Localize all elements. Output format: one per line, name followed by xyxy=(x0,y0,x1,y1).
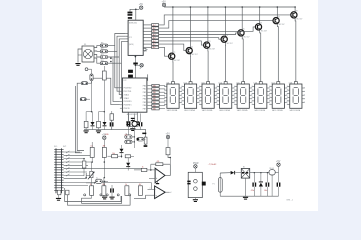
svg-text:BC 557: BC 557 xyxy=(227,43,233,45)
capacitor C4 xyxy=(135,121,139,122)
wire collector-emitter T8 xyxy=(294,7,296,12)
resistor R38 vertical xyxy=(144,137,147,144)
svg-text:BC 557: BC 557 xyxy=(279,24,285,26)
jumper JP9 xyxy=(125,140,132,143)
capacitor C6 xyxy=(110,122,111,126)
capacitor C3 xyxy=(126,121,130,122)
resistor R25 horizontal xyxy=(112,155,118,158)
IC1 left pins xyxy=(125,33,128,35)
ground X1 xyxy=(194,198,196,199)
svg-text:LD6: LD6 xyxy=(254,82,257,84)
resistor R34 vertical xyxy=(166,148,170,155)
power flag AC input xyxy=(194,165,197,168)
svg-text:1k: 1k xyxy=(125,184,127,186)
svg-text:+5V: +5V xyxy=(162,1,167,4)
display LD8 SA52-11 seven-segment xyxy=(290,84,302,108)
svg-text:LD5: LD5 xyxy=(236,82,239,84)
svg-text:SA52-11EWA: SA52-11EWA xyxy=(289,109,300,112)
transistor T9 xyxy=(132,121,137,126)
svg-text:IC2: IC2 xyxy=(124,80,127,82)
wire bridge out rail xyxy=(250,172,269,174)
svg-text:XTAL1: XTAL1 xyxy=(124,97,129,100)
resistor R22 small upper xyxy=(110,114,114,120)
resistor R14 330 xyxy=(148,101,152,103)
svg-text:100n: 100n xyxy=(264,190,268,192)
svg-text:+5V: +5V xyxy=(166,133,171,136)
jumper JP2 xyxy=(100,50,108,53)
svg-text:SV2: SV2 xyxy=(63,146,66,148)
wire +5V top rail xyxy=(164,6,295,8)
jumper JP7 horizontal xyxy=(81,82,87,85)
svg-text:PB0: PB0 xyxy=(143,85,146,87)
rail junction dots xyxy=(254,172,255,173)
svg-text:4k7: 4k7 xyxy=(153,47,156,49)
svg-text:PD2/INT0: PD2/INT0 xyxy=(124,101,132,103)
op-amp n/a IC1 box xyxy=(128,20,143,55)
svg-text:PWR: PWR xyxy=(193,162,199,165)
svg-text:PD0/RXD: PD0/RXD xyxy=(124,88,132,90)
svg-text:LD4: LD4 xyxy=(219,82,222,84)
transistor T2 BC557 xyxy=(186,48,192,54)
svg-text:JP1: JP1 xyxy=(101,42,104,44)
resistor R17 xyxy=(102,71,106,80)
capacitor C2 xyxy=(128,17,132,19)
wire IC1 bottom to IC2 xyxy=(134,55,136,78)
wire riser JP6 to row-A xyxy=(91,81,93,112)
svg-text:BC 557: BC 557 xyxy=(297,19,303,21)
wire base T7 xyxy=(159,21,273,29)
svg-text:PD1/TXD: PD1/TXD xyxy=(124,91,132,93)
svg-text:T4: T4 xyxy=(226,35,228,37)
svg-text:330: 330 xyxy=(153,92,156,94)
ground below connector xyxy=(56,198,61,199)
power stub op-amp IC3A xyxy=(157,181,159,183)
svg-text:PB2: PB2 xyxy=(143,92,146,94)
IC2 right pins xyxy=(146,85,149,87)
resistor R20 xyxy=(84,121,88,127)
diode D1 xyxy=(91,122,95,125)
wire base T2 xyxy=(159,44,186,51)
resistor R16 330 xyxy=(148,108,152,110)
svg-text:1k: 1k xyxy=(142,167,144,169)
svg-text:o2: o2 xyxy=(170,192,172,194)
resistor R7 4k7 xyxy=(152,43,159,46)
resistor R21 xyxy=(97,121,101,127)
display LD4 pins xyxy=(218,86,220,88)
wire bridge bottom xyxy=(245,178,247,196)
bridge rectifier B1 xyxy=(241,169,249,179)
power flag +5V mid xyxy=(103,136,106,139)
diode D2 xyxy=(103,122,107,125)
resistor R31 xyxy=(138,186,142,196)
regulator IC4 78L05 xyxy=(269,170,275,175)
resistor R8 4k7 xyxy=(152,46,159,49)
svg-text:330: 330 xyxy=(153,99,156,101)
svg-text:4k7: 4k7 xyxy=(153,41,156,43)
resistor R15 330 xyxy=(148,104,152,106)
op IC2 box AT90S2313 xyxy=(122,78,146,112)
jumper JP8 xyxy=(125,135,132,139)
resistor R6 4k7 xyxy=(152,40,159,43)
display LD5 SA52-11 seven-segment xyxy=(237,84,249,108)
svg-text:SA52-11EWA: SA52-11EWA xyxy=(237,109,248,112)
switch S1 rotary xyxy=(82,46,94,62)
svg-text:LD3: LD3 xyxy=(201,82,204,84)
junction dots analog xyxy=(91,161,93,163)
jumper JP3 xyxy=(100,56,108,59)
display LD8 pins xyxy=(288,86,290,88)
fuse F1 xyxy=(218,178,222,193)
svg-text:330: 330 xyxy=(153,95,156,97)
wires op-amp IC3A xyxy=(147,169,155,171)
bus wires IC1 to IC2 xyxy=(115,46,120,88)
svg-text:47k: 47k xyxy=(157,161,160,163)
svg-text:PB7: PB7 xyxy=(143,109,146,111)
ground row-A left xyxy=(84,130,89,131)
resistor R37 xyxy=(82,161,86,168)
svg-text:IC1: IC1 xyxy=(129,37,132,39)
svg-text:T3: T3 xyxy=(209,41,211,43)
wires bottom loops xyxy=(82,196,122,203)
ground bar mid xyxy=(133,63,138,65)
capacitor C8 xyxy=(139,122,140,126)
power flag +5V out xyxy=(277,163,280,166)
net labels at connector xyxy=(66,151,70,153)
display LD1 SA52-11 seven-segment xyxy=(167,84,179,108)
svg-text:1k: 1k xyxy=(90,184,92,186)
resistor R3 4k7 xyxy=(152,30,159,33)
jumper JP4 xyxy=(100,62,108,65)
wire base T3 xyxy=(159,41,204,45)
svg-text:JP3: JP3 xyxy=(101,54,104,56)
transistor T6 BC557 xyxy=(255,24,261,30)
svg-text:5991 - 1: 5991 - 1 xyxy=(286,200,293,202)
switch right pins xyxy=(94,46,100,48)
bus wire extra xyxy=(113,58,120,101)
svg-text:BC 557: BC 557 xyxy=(174,60,180,62)
resistor R28 xyxy=(90,186,94,196)
wires connector fan xyxy=(64,151,80,153)
svg-text:+5V: +5V xyxy=(139,3,144,6)
resistor R23 xyxy=(90,147,94,157)
capacitor C12 xyxy=(277,183,278,187)
resistor R12 330 xyxy=(148,95,152,97)
wire base T4 xyxy=(159,38,221,40)
svg-text:10k: 10k xyxy=(91,146,94,148)
jumper JP6 vertical xyxy=(90,74,93,81)
connector SL1 header xyxy=(55,148,57,193)
svg-text:B1: B1 xyxy=(243,167,245,169)
display LD3 SA52-11 seven-segment xyxy=(202,84,214,108)
wire IC1 VCC xyxy=(135,9,137,20)
resistor R24 xyxy=(102,147,106,157)
svg-text:PB6: PB6 xyxy=(143,105,146,107)
svg-text:T2: T2 xyxy=(191,46,193,48)
svg-text:PD3/INT1: PD3/INT1 xyxy=(124,105,132,107)
capacitor bar right xyxy=(142,133,146,135)
resistor R30 xyxy=(125,186,129,196)
display LD7 pins xyxy=(270,86,272,88)
svg-text:BC 557: BC 557 xyxy=(244,37,250,39)
wire collector-emitter T4 xyxy=(224,7,226,36)
svg-text:LD8: LD8 xyxy=(289,82,292,84)
svg-text:F1: F1 xyxy=(213,184,215,186)
op-amp IC3A xyxy=(155,168,165,183)
capacitor C9 xyxy=(110,188,111,192)
wire base T6 xyxy=(159,27,256,31)
wire collector-emitter T2 xyxy=(189,7,191,48)
svg-text:330: 330 xyxy=(153,85,156,87)
wire long net to switch area xyxy=(91,78,120,104)
IC1 lower right pins xyxy=(143,47,146,49)
display LD4 SA52-11 seven-segment xyxy=(220,84,232,108)
svg-text:78L05: 78L05 xyxy=(269,168,274,170)
capacitor C5 at IC2 top xyxy=(128,70,133,73)
svg-text:S1: S1 xyxy=(84,44,86,46)
resistor R13 330 xyxy=(148,98,152,100)
sounder SP1 oval xyxy=(95,179,102,183)
svg-text:+5V: +5V xyxy=(276,160,281,163)
svg-text:4k7: 4k7 xyxy=(153,44,156,46)
display LD2 SA52-11 seven-segment xyxy=(184,84,196,108)
svg-text:4k7: 4k7 xyxy=(153,38,156,40)
wire long bottom nets xyxy=(64,173,87,179)
svg-text:10k: 10k xyxy=(112,153,115,155)
wire jumper column xyxy=(127,130,129,135)
svg-text:BC 557: BC 557 xyxy=(192,54,198,56)
svg-text:SA52-11EWA: SA52-11EWA xyxy=(184,109,195,112)
crystal Q1 xyxy=(131,118,135,119)
resistor R26 xyxy=(125,155,130,158)
wire collector-emitter T5 xyxy=(241,7,243,30)
svg-text:T1: T1 xyxy=(174,52,176,54)
wire riser R17 to row-A xyxy=(103,80,105,112)
svg-text:4k7: 4k7 xyxy=(139,184,142,186)
pad row bottom xyxy=(84,194,86,196)
svg-text:4k7: 4k7 xyxy=(103,146,106,148)
cap C14 oval xyxy=(137,137,144,141)
wires fuse to bridge xyxy=(220,172,230,174)
resistor R5 4k7 xyxy=(152,36,159,39)
svg-text:LD2: LD2 xyxy=(183,82,186,84)
wire collector-emitter T6 xyxy=(259,7,261,24)
svg-text:SA52-11EWA: SA52-11EWA xyxy=(272,109,283,112)
wire bottom rail power xyxy=(220,195,278,197)
svg-text:PD4/T0: PD4/T0 xyxy=(124,108,130,110)
display LD3 pins xyxy=(200,86,202,88)
svg-text:+5V: +5V xyxy=(102,133,107,136)
svg-text:be: be xyxy=(96,178,98,180)
display LD6 pins xyxy=(253,86,255,88)
svg-text:SA52-11EWA: SA52-11EWA xyxy=(167,109,178,112)
svg-text:BC 557: BC 557 xyxy=(209,49,215,51)
wire corner to IC2 right xyxy=(138,74,148,80)
svg-text:330: 330 xyxy=(153,109,156,111)
svg-text:XTAL2: XTAL2 xyxy=(124,93,129,96)
wire crystal gnd xyxy=(128,125,137,126)
op-amp IC3B xyxy=(155,186,166,199)
pad SJ1 xyxy=(80,98,86,101)
capacitor C1 xyxy=(128,12,133,14)
wire base T8 xyxy=(159,15,291,25)
wire row-A rail xyxy=(84,129,146,131)
wires upper-left verticals xyxy=(77,83,84,150)
resistor R11 330 xyxy=(148,91,152,93)
op wires IC1 top decoupling xyxy=(130,9,139,11)
svg-text:10k: 10k xyxy=(102,184,105,186)
wire collector-emitter T1 xyxy=(172,7,174,53)
wire sounder xyxy=(86,182,95,184)
wire collector-emitter T3 xyxy=(207,7,209,42)
svg-text:330: 330 xyxy=(153,102,156,104)
svg-text:PB3: PB3 xyxy=(143,95,146,97)
transistor T3 BC557 xyxy=(204,42,210,48)
svg-text:(MCU): (MCU) xyxy=(129,44,134,46)
svg-text:330: 330 xyxy=(153,105,156,107)
IC2 left pins xyxy=(120,87,123,89)
svg-text:PB4: PB4 xyxy=(143,99,146,101)
jumper JP1 xyxy=(100,44,108,47)
svg-text:PB1: PB1 xyxy=(143,89,146,91)
svg-text:T6: T6 xyxy=(260,23,262,25)
power flag +5V transistor rail xyxy=(162,3,165,6)
svg-text:4k7: 4k7 xyxy=(153,31,156,33)
power flag mid-IC xyxy=(140,64,143,67)
diode D5 xyxy=(231,171,235,175)
wire crystal X1 leads xyxy=(127,112,129,121)
resistor R29 xyxy=(102,186,106,196)
svg-text:4k7: 4k7 xyxy=(153,28,156,30)
display LD7 SA52-11 seven-segment xyxy=(272,84,284,108)
svg-text:JP2: JP2 xyxy=(101,48,104,50)
wire base T1 xyxy=(159,47,169,56)
svg-text:470u: 470u xyxy=(251,190,255,192)
resistor R36 to op-amp xyxy=(141,168,147,171)
svg-text:LD1: LD1 xyxy=(166,82,169,84)
transistor T4 BC557 xyxy=(221,36,227,42)
wire base T5 xyxy=(159,33,238,35)
svg-text:SL1: SL1 xyxy=(54,146,57,148)
IC1 right pins to RN1 xyxy=(143,24,151,26)
svg-text:T8: T8 xyxy=(296,11,298,13)
svg-text:10k: 10k xyxy=(125,135,128,137)
display LD5 pins xyxy=(235,86,237,88)
switch left pins + ground xyxy=(78,49,82,63)
transistor T7 BC557 xyxy=(273,18,279,24)
svg-text:SA52-11EWA: SA52-11EWA xyxy=(219,109,230,112)
resistor R1 4k7 xyxy=(152,24,159,27)
svg-text:T7: T7 xyxy=(278,16,280,18)
diode D3 xyxy=(120,149,124,152)
resistor R9 330 xyxy=(148,85,152,87)
capacitor C13 blob xyxy=(144,145,148,147)
diode D4 xyxy=(126,163,130,166)
svg-text:4k7: 4k7 xyxy=(153,34,156,36)
svg-text:PB5: PB5 xyxy=(143,102,146,104)
trimmer P1 xyxy=(90,171,93,177)
wires row-A risers xyxy=(128,113,130,119)
resistor R33 xyxy=(66,190,69,195)
resistor R35 feedback xyxy=(156,163,163,166)
transistor T1 BC557 xyxy=(169,53,175,59)
power flag +5V op-amp xyxy=(166,135,169,138)
wire collector-emitter T7 xyxy=(276,7,278,18)
transistor T5 BC557 xyxy=(238,30,244,36)
svg-text:4k7: 4k7 xyxy=(153,25,156,27)
ground power rail xyxy=(243,197,248,198)
ground row-A mid xyxy=(96,130,101,131)
resistor R2 4k7 xyxy=(152,27,159,30)
svg-text:T5: T5 xyxy=(243,29,245,31)
net label slanted xyxy=(140,65,143,69)
transistor T8 BC557 xyxy=(291,12,297,18)
svg-text:SA52-11EWA: SA52-11EWA xyxy=(254,109,265,112)
svg-text:330: 330 xyxy=(153,89,156,91)
display LD1 pins xyxy=(165,86,167,88)
connector X1 power input xyxy=(188,172,202,197)
wire row-A stubs up xyxy=(85,112,87,122)
capacitor C7 xyxy=(127,122,128,126)
display LD2 pins xyxy=(182,86,184,88)
svg-text:LD7: LD7 xyxy=(271,82,274,84)
diode D6 zener xyxy=(259,183,263,187)
power flag +5V near IC1 xyxy=(140,6,143,9)
svg-text:JP4: JP4 xyxy=(101,60,104,62)
svg-text:SA52-11EWA: SA52-11EWA xyxy=(202,109,213,112)
wire row-A drop xyxy=(144,130,146,145)
resistor R32 xyxy=(58,190,61,195)
svg-text:BC 557: BC 557 xyxy=(261,31,267,33)
resistor R4 4k7 xyxy=(152,33,159,36)
svg-text:~7,5V AC: ~7,5V AC xyxy=(208,163,217,166)
resistor R10 330 xyxy=(148,88,152,90)
pad JP5 xyxy=(85,68,88,71)
wires op-amp IC3B xyxy=(148,188,155,190)
display LD6 SA52-11 seven-segment xyxy=(255,84,267,108)
jumper bus wires to IC1 xyxy=(108,34,126,46)
